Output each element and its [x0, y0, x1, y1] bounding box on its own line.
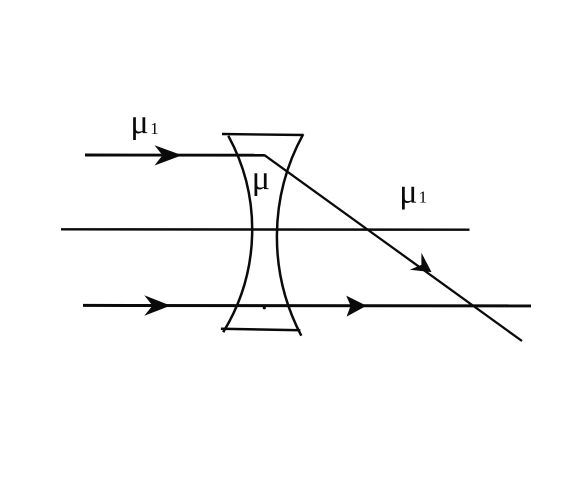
concave lens: right concave surface	[277, 134, 303, 336]
incident ray 1 (top, horizontal)	[85, 154, 265, 157]
svg-text:μ: μ	[130, 104, 148, 141]
arrowhead on refracted ray	[409, 253, 437, 281]
concave lens: bottom cap	[221, 329, 300, 331]
svg-text:1: 1	[419, 187, 428, 206]
arrowhead 2 on ray 2	[346, 296, 366, 317]
ink blip on ray 2	[263, 306, 266, 309]
principal axis (middle horizontal line)	[61, 228, 470, 231]
incident ray 2 (bottom, horizontal)	[83, 304, 531, 308]
concave lens: top cap	[222, 134, 304, 135]
arrowhead 1 on ray 2	[144, 295, 170, 316]
svg-text:μ: μ	[252, 160, 270, 197]
concave lens: left concave surface	[223, 136, 252, 332]
svg-text:1: 1	[150, 119, 159, 138]
arrowhead on incident ray 1	[155, 145, 183, 165]
refracted ray (diagonal, down-right)	[265, 155, 523, 341]
svg-text:μ: μ	[399, 173, 417, 210]
